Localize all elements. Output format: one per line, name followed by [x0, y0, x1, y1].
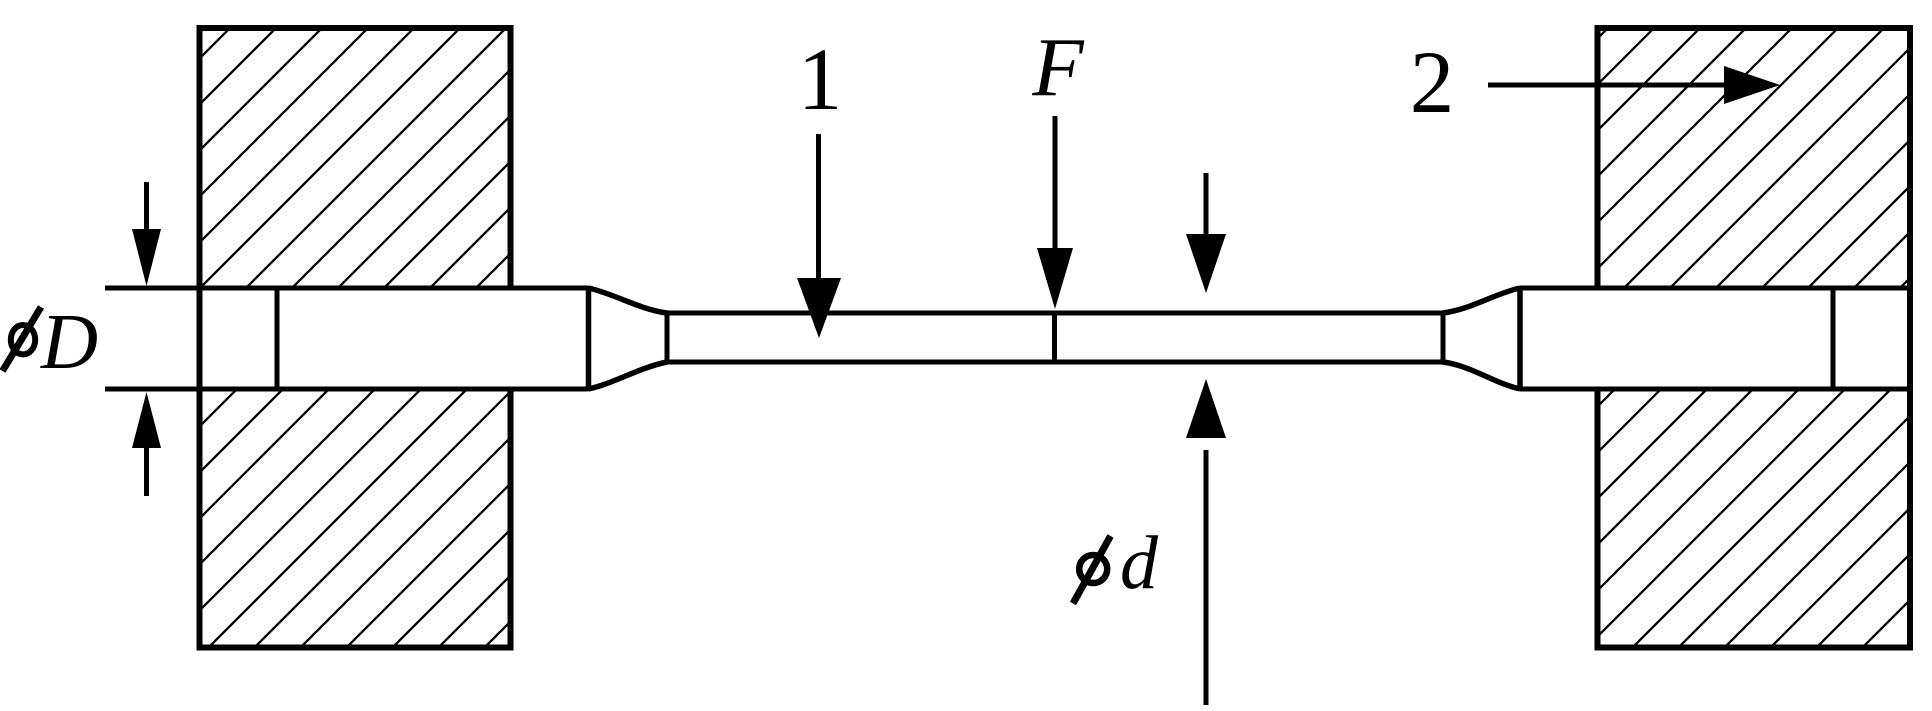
svg-text:d: d	[1120, 521, 1159, 605]
svg-text:F: F	[1031, 21, 1085, 114]
svg-text:1: 1	[798, 31, 843, 129]
svg-text:2: 2	[1410, 34, 1455, 132]
svg-text:D: D	[40, 299, 98, 386]
